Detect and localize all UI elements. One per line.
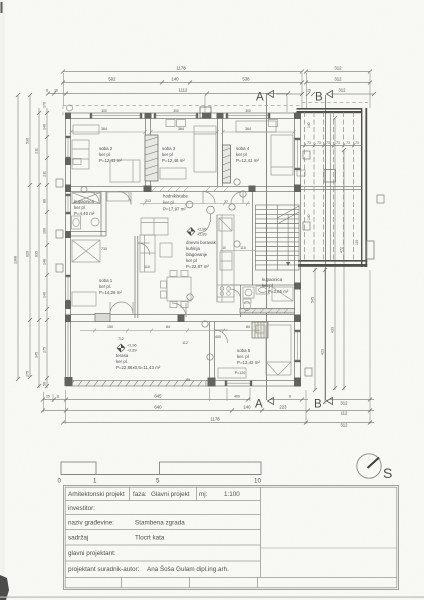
svg-text:0: 0 xyxy=(58,478,62,485)
svg-text:A: A xyxy=(256,92,264,104)
svg-text:545: 545 xyxy=(311,297,315,303)
interior wall v x240 bath left xyxy=(240,285,242,317)
dim leader verticals top xyxy=(204,96,206,113)
dim line top row3 1112 xyxy=(48,93,288,95)
soba5 nightstand xyxy=(256,325,264,333)
interior wall h y314.5 soba1/terrace xyxy=(71,314,295,316)
room labels xyxy=(74,109,289,370)
svg-text:140: 140 xyxy=(43,124,47,130)
door soba5 xyxy=(215,330,228,343)
post right wall y285 xyxy=(294,283,301,290)
post terrace bottom-left xyxy=(65,377,73,386)
svg-text:P=4,40 m²: P=4,40 m² xyxy=(74,211,95,216)
svg-text:soba 2: soba 2 xyxy=(99,146,113,151)
svg-text:73: 73 xyxy=(355,141,359,145)
staircase double flight xyxy=(207,205,299,270)
small rect outside right edge xyxy=(367,241,375,259)
svg-text:300: 300 xyxy=(101,109,107,113)
svg-text:kuhinja: kuhinja xyxy=(186,246,200,251)
exterior bottom wall double line (soba5 part) xyxy=(206,380,301,382)
bath bottom wall poché xyxy=(240,309,295,314)
post left wall y300 xyxy=(65,301,71,309)
svg-text:148: 148 xyxy=(43,259,47,265)
exterior top wall double line xyxy=(66,112,301,114)
svg-text:275: 275 xyxy=(26,371,30,377)
svg-text:P=120: P=120 xyxy=(235,371,246,375)
furniture light strokes xyxy=(72,121,294,378)
svg-text:640: 640 xyxy=(154,405,162,410)
bath2 shower xyxy=(272,287,293,301)
svg-text:140: 140 xyxy=(307,214,311,220)
terrace bottom parapet hatched strip xyxy=(66,381,207,387)
svg-text:+2,89: +2,89 xyxy=(127,349,137,353)
svg-text:5: 5 xyxy=(156,478,160,485)
door living entrance arc xyxy=(199,222,210,233)
svg-text:soba 3: soba 3 xyxy=(162,146,176,151)
interior wall h y285 bath top xyxy=(222,284,295,286)
svg-text:P=17,97 m²: P=17,97 m² xyxy=(163,207,186,212)
svg-text:B: B xyxy=(315,92,323,104)
svg-text:84: 84 xyxy=(166,325,170,329)
svg-text:kupaonica: kupaonica xyxy=(74,199,95,204)
balcony dim row 73s xyxy=(301,144,362,148)
title column lines xyxy=(129,487,131,501)
scan edge left band xyxy=(0,0,5,600)
scattered small dim texts in plan xyxy=(101,127,251,382)
svg-text:naziv građevine:: naziv građevine: xyxy=(68,520,114,527)
svg-text:glavni projektant:: glavni projektant: xyxy=(68,550,116,557)
door soba1 xyxy=(138,243,150,255)
post left wall y243 xyxy=(65,231,71,238)
svg-text:620: 620 xyxy=(26,251,30,257)
svg-text:150: 150 xyxy=(107,325,113,329)
post bottom wall x209 xyxy=(208,378,216,387)
svg-text:73: 73 xyxy=(317,141,321,145)
balcony bottom edge xyxy=(298,260,367,262)
svg-text:ker. pl: ker. pl xyxy=(237,354,249,359)
scan shadow line bottom xyxy=(0,597,424,598)
svg-text:112: 112 xyxy=(182,341,188,345)
door arcs xyxy=(88,192,243,344)
svg-text:Stambena zgrada: Stambena zgrada xyxy=(135,520,185,527)
interior wall v x150 soba2/soba3 xyxy=(145,119,147,187)
window flank posts xyxy=(66,113,301,386)
soba3 desk xyxy=(160,168,186,179)
svg-text:364: 364 xyxy=(101,127,107,131)
svg-text:8: 8 xyxy=(289,395,291,399)
soba5 bed xyxy=(266,325,291,375)
interior wall v x222 soba3/soba4 xyxy=(217,119,219,187)
interior dim lines xyxy=(70,130,296,333)
dim line left chain B xyxy=(29,95,31,377)
svg-text:423: 423 xyxy=(321,349,325,355)
svg-text:73: 73 xyxy=(336,141,340,145)
balcony hatch dash-dot verticals xyxy=(305,112,354,260)
soba2 bed xyxy=(110,160,140,182)
svg-text:73: 73 xyxy=(346,141,350,145)
svg-text:ker pl.: ker pl. xyxy=(116,359,128,364)
dim boundary verticals bottom xyxy=(43,392,45,412)
svg-text:89: 89 xyxy=(186,378,190,382)
post top wall x219 xyxy=(217,113,224,119)
drain circle symbol xyxy=(207,206,215,214)
svg-text:80: 80 xyxy=(43,199,47,203)
dim line top row3 right xyxy=(276,93,302,95)
svg-text:P=12,46 m²: P=12,46 m² xyxy=(162,158,185,163)
svg-text:P=22,87 m²: P=22,87 m² xyxy=(186,264,209,269)
balcony solid vertical line xyxy=(330,112,332,260)
roof overhang dashed line xyxy=(63,103,368,119)
stove circles xyxy=(217,285,234,297)
svg-text:312: 312 xyxy=(340,401,348,406)
svg-text:P=22,86x0,5=11,43 m²: P=22,86x0,5=11,43 m² xyxy=(116,365,161,370)
dim line bottom row2 xyxy=(43,410,374,412)
balcony structure right xyxy=(297,108,375,267)
svg-text:faza:: faza: xyxy=(133,491,147,498)
window right wall soba4 xyxy=(295,139,301,141)
interior wall v x252 stairs left xyxy=(252,192,254,286)
soba4 dresser top xyxy=(236,121,276,132)
svg-text:538: 538 xyxy=(242,77,250,82)
svg-text:B: B xyxy=(314,399,322,411)
post h-wall x145 y186 xyxy=(144,186,152,193)
section line A xyxy=(255,91,274,411)
window left wall soba2 xyxy=(66,137,71,139)
svg-text:terasa: terasa xyxy=(116,353,129,358)
svg-text:1178: 1178 xyxy=(176,66,186,71)
svg-text:projektant suradnik-autor:: projektant suradnik-autor: xyxy=(68,566,140,573)
svg-text:211: 211 xyxy=(35,148,39,154)
balcony tag box xyxy=(303,151,310,159)
window right wall soba5 xyxy=(295,331,301,333)
title block xyxy=(64,486,399,590)
svg-text:soba 5: soba 5 xyxy=(237,348,251,353)
dim line right v3 433 xyxy=(334,118,336,390)
svg-text:1178: 1178 xyxy=(210,417,220,422)
wall hatch ticks corridor wall xyxy=(152,187,228,191)
dim line top row1 312 right xyxy=(306,71,370,73)
svg-text:P=13,42 m²: P=13,42 m² xyxy=(237,360,260,365)
window spec boxes under top wall xyxy=(73,120,305,177)
exterior left wall double line xyxy=(65,113,67,386)
dim line right v4 xyxy=(343,150,345,390)
svg-text:84: 84 xyxy=(246,325,250,329)
soba2 dresser xyxy=(73,125,99,134)
svg-text:hodnik/stube: hodnik/stube xyxy=(163,194,188,199)
svg-text:433: 433 xyxy=(331,327,335,333)
title row lines xyxy=(65,500,261,502)
svg-text:8: 8 xyxy=(46,89,48,93)
svg-text:400: 400 xyxy=(215,335,221,339)
post left wall y158 xyxy=(65,158,71,165)
svg-text:275: 275 xyxy=(43,347,47,353)
scale bar xyxy=(58,462,262,485)
svg-text:investitor:: investitor: xyxy=(68,505,95,512)
door kupaonica xyxy=(88,192,99,203)
soba5 desk xyxy=(218,368,246,378)
svg-text:635: 635 xyxy=(35,251,39,257)
svg-text:Tlocrt kata: Tlocrt kata xyxy=(135,535,165,542)
svg-text:530: 530 xyxy=(26,138,30,144)
dim ticks bottom xyxy=(41,398,372,425)
svg-text:170: 170 xyxy=(43,102,47,108)
hallway closet xyxy=(107,192,129,201)
kitchen sink xyxy=(220,252,232,270)
dim ticks top xyxy=(46,70,376,97)
post left wall y186 xyxy=(65,185,71,193)
svg-text:1:100: 1:100 xyxy=(224,491,240,498)
post h-wall x250 y186 xyxy=(249,186,256,193)
elevation marker dnevni xyxy=(187,228,207,237)
post bottom wall x180 xyxy=(178,315,185,323)
svg-text:11: 11 xyxy=(56,395,60,399)
window left wall kupaonica xyxy=(66,195,71,197)
svg-text:140: 140 xyxy=(243,405,251,410)
hatched wall seg left of terrace door xyxy=(95,314,110,322)
dim line top row1 1178 xyxy=(63,71,302,73)
dim line right v1 xyxy=(314,268,316,390)
svg-text:ker pl: ker pl xyxy=(74,205,85,210)
chimney top wall xyxy=(200,107,211,118)
svg-text:502: 502 xyxy=(108,77,116,82)
balcony square box xyxy=(324,170,336,183)
svg-text:110: 110 xyxy=(355,240,359,245)
windows (thin midlines in wall gaps) xyxy=(66,113,301,386)
svg-text:312: 312 xyxy=(338,88,346,93)
dim ticks right verticals xyxy=(313,116,346,404)
window top wall soba3 xyxy=(155,113,157,119)
svg-text:10: 10 xyxy=(222,246,226,250)
bath2 wc xyxy=(244,301,251,310)
svg-text:blagovanje: blagovanje xyxy=(186,252,208,257)
dining table xyxy=(167,277,191,301)
post top-left corner xyxy=(65,113,71,120)
svg-text:10: 10 xyxy=(254,478,261,485)
window top wall soba2 xyxy=(91,113,93,119)
window bottom wall soba5 xyxy=(226,381,228,387)
window top wall soba4 xyxy=(227,113,229,119)
fridge xyxy=(219,218,232,231)
svg-text:312: 312 xyxy=(334,66,342,71)
svg-text:+2,89: +2,89 xyxy=(197,233,207,237)
svg-text:140: 140 xyxy=(43,292,47,298)
soba2 wardrobe left xyxy=(72,140,89,169)
coffee table xyxy=(160,243,172,257)
door soba4 xyxy=(231,192,243,204)
svg-text:1: 1 xyxy=(93,478,97,485)
svg-text:+2,96: +2,96 xyxy=(127,344,137,348)
dim line left chain C xyxy=(38,108,40,388)
dim line left chain D xyxy=(46,108,48,388)
exterior right wall double line xyxy=(294,113,296,386)
kitchen wall stub xyxy=(216,215,218,302)
wall tag boxes left xyxy=(56,179,384,376)
dim line right v2 xyxy=(324,268,326,404)
svg-text:Arhitektonski projekt: Arhitektonski projekt xyxy=(68,491,125,498)
svg-text:P=12,41 m²: P=12,41 m² xyxy=(236,158,259,163)
terrace french door arcs xyxy=(110,302,122,314)
interior wall h y186 xyxy=(71,186,295,188)
svg-text:P=12,41 m²: P=12,41 m² xyxy=(99,158,122,163)
soba3 bed xyxy=(194,126,216,172)
bath2 washing machine xyxy=(243,287,254,298)
dim line left chain total 1368 xyxy=(17,95,19,379)
svg-text:712: 712 xyxy=(118,337,124,341)
soba4 bed xyxy=(271,135,293,175)
svg-text:ker pl: ker pl xyxy=(163,200,174,205)
circled tag numbers xyxy=(81,179,246,360)
svg-text:364: 364 xyxy=(245,127,251,131)
balcony top edge xyxy=(297,108,363,110)
svg-text:112: 112 xyxy=(341,411,348,416)
svg-text:345: 345 xyxy=(35,352,39,358)
interior wall h y231 kupaonica bottom xyxy=(71,231,107,233)
post right wall bottom corner xyxy=(294,378,301,387)
svg-text:ker pl: ker pl xyxy=(99,152,110,157)
sofa living L-shape xyxy=(141,218,168,235)
svg-text:P=3,65 m²: P=3,65 m² xyxy=(268,289,289,294)
svg-text:50: 50 xyxy=(43,382,47,386)
svg-text:16: 16 xyxy=(54,89,58,93)
door terrace xyxy=(172,303,186,317)
svg-text:ker pl: ker pl xyxy=(262,283,273,288)
terrace edge left xyxy=(66,322,69,386)
svg-text:300: 300 xyxy=(245,109,251,113)
svg-text:25: 25 xyxy=(307,89,311,93)
svg-text:kupaonica: kupaonica xyxy=(262,277,283,282)
svg-text:25: 25 xyxy=(46,395,50,399)
svg-text:160: 160 xyxy=(43,228,47,234)
svg-text:313: 313 xyxy=(145,199,151,203)
scan blob bottom-left xyxy=(0,575,9,600)
svg-text:140: 140 xyxy=(171,77,179,82)
post right wall y186 xyxy=(294,185,301,193)
svg-text:140: 140 xyxy=(307,122,311,128)
balcony mid wall xyxy=(301,186,362,188)
wardrobe hatched soba4 xyxy=(223,145,231,183)
soba1 wardrobe xyxy=(72,292,96,306)
dim line top row2 502+140+538 xyxy=(63,82,302,84)
svg-text:73: 73 xyxy=(307,141,311,145)
interior wall v x106 kupaonica right xyxy=(100,192,102,237)
section line B xyxy=(314,91,333,411)
svg-text:223: 223 xyxy=(279,405,287,410)
interior wall v soba1 right xyxy=(134,236,136,318)
dim line bottom row3 1178 xyxy=(63,422,374,424)
bath2 sink xyxy=(256,286,269,294)
svg-text:soba 1: soba 1 xyxy=(99,278,113,283)
svg-text:645: 645 xyxy=(154,394,162,399)
svg-text:110: 110 xyxy=(240,246,246,250)
svg-text:dnevni boravak: dnevni boravak xyxy=(186,240,217,245)
svg-text:110: 110 xyxy=(144,265,150,269)
svg-text:211: 211 xyxy=(43,171,47,177)
north arrow xyxy=(357,454,393,481)
door bath2 xyxy=(231,289,241,299)
dim line bottom row1 xyxy=(43,399,250,401)
window left wall soba1 xyxy=(66,276,71,278)
svg-text:ker pl: ker pl xyxy=(236,152,247,157)
svg-text:472: 472 xyxy=(340,247,344,253)
dim ticks left xyxy=(16,93,49,388)
right big cell divider xyxy=(261,547,398,549)
post top-right corner xyxy=(294,113,301,120)
svg-text:73: 73 xyxy=(326,141,330,145)
svg-text:364: 364 xyxy=(178,127,184,131)
svg-text:Ana Šoša Gulam dipl.ing.arh.: Ana Šoša Gulam dipl.ing.arh. xyxy=(147,564,229,573)
post right wall y317 xyxy=(294,315,301,323)
svg-text:300: 300 xyxy=(173,109,179,113)
svg-text:1368: 1368 xyxy=(14,256,18,264)
interior wall v x209 soba5 left xyxy=(209,322,211,381)
svg-text:soba 4: soba 4 xyxy=(236,146,250,151)
svg-text:A: A xyxy=(255,399,263,411)
svg-text:ker pl: ker pl xyxy=(162,152,173,157)
kupaonica fixtures xyxy=(72,193,100,204)
svg-text:+2,96: +2,96 xyxy=(197,228,207,232)
stair cut diagonals xyxy=(277,206,299,218)
elevation marker terasa xyxy=(117,344,137,353)
door soba3 xyxy=(203,192,215,204)
soba1 wardrobe X xyxy=(72,240,100,262)
svg-text:312: 312 xyxy=(334,77,342,82)
svg-text:S: S xyxy=(383,465,392,481)
svg-text:400: 400 xyxy=(234,395,240,399)
stair walk line xyxy=(265,212,267,266)
wardrobe hatched soba2/3 xyxy=(145,135,158,181)
svg-text:Glavni projekt: Glavni projekt xyxy=(151,491,190,498)
balcony lower tag box xyxy=(303,222,310,230)
door soba2 xyxy=(118,192,131,205)
post top wall x147 xyxy=(145,113,152,119)
svg-text:ker pl: ker pl xyxy=(186,258,197,263)
balcony right edge xyxy=(361,108,362,267)
svg-text:ker pl.: ker pl. xyxy=(99,284,111,289)
wardrobe hatched soba5 xyxy=(252,322,268,338)
post left wall y315 corner xyxy=(65,315,71,323)
scan edge dark tick top-left xyxy=(1,2,3,13)
svg-text:P=14,26 m²: P=14,26 m² xyxy=(99,290,122,295)
svg-text:730: 730 xyxy=(101,247,107,251)
svg-text:sadržaj: sadržaj xyxy=(68,535,88,542)
svg-text:312: 312 xyxy=(340,423,348,428)
kitchen counter band xyxy=(217,215,234,302)
dim line top row2 312 right xyxy=(306,82,370,84)
svg-text:mj:: mj: xyxy=(199,491,208,498)
svg-text:1112: 1112 xyxy=(179,88,189,93)
